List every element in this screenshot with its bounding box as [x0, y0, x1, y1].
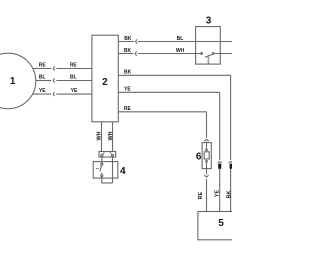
- connector chevron on YE vertical: [218, 162, 222, 163]
- wire BL to box3 and right edge: [138, 41, 232, 43]
- wire BL circle1 to connector: [36, 80, 51, 82]
- svg-text:RE: RE: [70, 63, 78, 69]
- connector chevron above fuse: [204, 140, 208, 142]
- wire WH right vertical from box2: [112, 122, 114, 152]
- wire YE circle1 to connector: [33, 93, 51, 95]
- wire YE row horizontal: [118, 91, 219, 93]
- connector block terminal right: [112, 154, 114, 156]
- connector chevron on BK vertical: [229, 162, 233, 163]
- motor M circle component 1: [0, 53, 36, 109]
- svg-text:BK: BK: [124, 36, 132, 42]
- svg-text:YE: YE: [39, 88, 46, 94]
- svg-text:BK: BK: [226, 191, 232, 199]
- black inline connector on BK vertical: [230, 164, 233, 169]
- connector on row1: [136, 40, 138, 44]
- svg-text:BL: BL: [39, 75, 46, 81]
- wire RE connector to box2: [56, 68, 92, 70]
- switch contact right in box3: [212, 53, 214, 55]
- connector chevron below fuse: [205, 175, 209, 177]
- svg-text:BK: BK: [124, 48, 132, 54]
- fuse element end caps: [206, 149, 208, 151]
- connector on YE wire: [53, 92, 54, 96]
- svg-text:BL: BL: [177, 36, 184, 42]
- wire YE connector to box2: [56, 93, 92, 95]
- connector on row2: [135, 52, 137, 56]
- svg-text:BL: BL: [70, 75, 77, 81]
- wire BK vertical to box5: [230, 169, 232, 212]
- wire WH left vertical from box2: [101, 122, 103, 152]
- wire from switch to right edge: [214, 53, 232, 55]
- wire WH to switch in box3: [138, 53, 201, 55]
- svg-text:RE: RE: [124, 106, 132, 112]
- wire RE vertical to box5: [206, 179, 208, 212]
- black inline connector on YE vertical: [218, 164, 221, 169]
- u-shaped return wire under box 4: [102, 177, 113, 183]
- svg-text:YE: YE: [124, 87, 131, 93]
- svg-text:YE: YE: [215, 190, 221, 198]
- svg-text:1: 1: [10, 76, 16, 87]
- wire RE vertical to fuse: [206, 112, 208, 138]
- svg-text:WH: WH: [96, 131, 102, 140]
- wire BK box2 to connector row2: [118, 53, 133, 55]
- connector on RE wire: [53, 67, 54, 71]
- switch 4 blade: [100, 165, 102, 174]
- svg-text:RE: RE: [39, 63, 47, 69]
- svg-text:WH: WH: [108, 131, 114, 140]
- svg-text:4: 4: [120, 166, 126, 177]
- fuse 6 element: [204, 152, 209, 159]
- switch 4 top contact: [101, 163, 103, 165]
- switch contact left in box3: [201, 53, 203, 55]
- svg-text:5: 5: [218, 218, 224, 229]
- wire BK row3 horizontal: [118, 74, 230, 76]
- switch 4 actuator dash: [96, 167, 99, 169]
- svg-text:6: 6: [196, 151, 202, 162]
- load box 5 (cut at right edge): [198, 212, 243, 240]
- svg-text:3: 3: [206, 16, 212, 27]
- wire BK box2 to connector row1: [118, 41, 134, 43]
- switch 4 bottom contact: [101, 175, 103, 177]
- svg-text:RE: RE: [198, 191, 204, 199]
- svg-text:BK: BK: [124, 70, 132, 76]
- fuse 6 body: [202, 143, 211, 169]
- wire left into switch 4: [101, 156, 103, 163]
- svg-text:WH: WH: [176, 48, 185, 54]
- switch blade in box3: [205, 54, 212, 57]
- connector block wedge: [103, 152, 112, 155]
- switch box 4: [93, 162, 118, 179]
- tiny marking under switch box3: [208, 57, 210, 63]
- control unit box 2: [92, 35, 118, 122]
- wire BK vertical right edge: [230, 75, 232, 160]
- connector block between 2 and 4: [99, 152, 116, 158]
- wire stub into fuse: [206, 141, 208, 174]
- wire BL connector to box2: [56, 80, 92, 82]
- connector on BL wire: [53, 79, 54, 83]
- wire YE vertical to box5: [219, 169, 221, 212]
- svg-text:2: 2: [102, 77, 108, 88]
- wire right through box 4: [112, 156, 114, 183]
- junction box 3: [196, 27, 221, 65]
- wire RE row horizontal: [118, 111, 206, 113]
- wire RE circle1 to connector: [33, 68, 51, 70]
- connector block terminal left: [101, 154, 103, 156]
- wire YE vertical: [219, 92, 221, 160]
- svg-text:YE: YE: [71, 88, 78, 94]
